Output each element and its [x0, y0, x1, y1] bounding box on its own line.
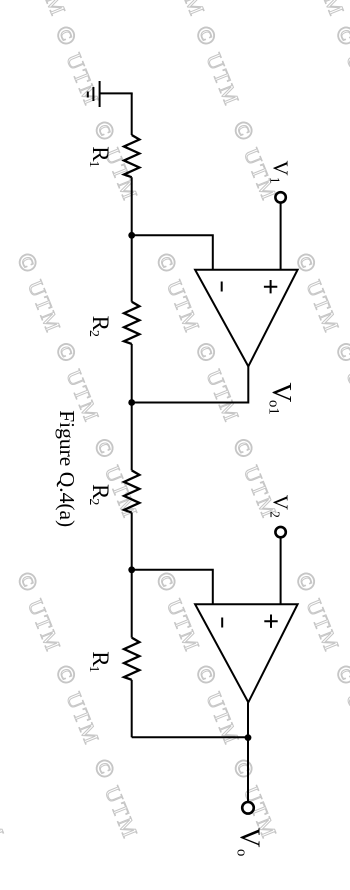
- resistor R1 (right): [124, 638, 139, 680]
- svg-text:© UTM: © UTM: [88, 755, 145, 844]
- svg-text:© UTM: © UTM: [11, 568, 68, 657]
- wire: bus segment R1 to output corner: [131, 680, 133, 738]
- wire: op-amp U2 output to Vo terminal: [247, 702, 249, 801]
- svg-text:© UTM: © UTM: [189, 22, 246, 111]
- wire: V1 terminal to op-amp U1 non-inverting input: [280, 203, 282, 270]
- svg-text:V2: V2: [268, 495, 293, 518]
- op-amp U1: [195, 270, 298, 367]
- op-amp U2 plus sign: [264, 615, 277, 628]
- terminal V2: [275, 527, 285, 537]
- resistor R2 (right): [124, 470, 139, 512]
- svg-text:R1: R1: [86, 651, 113, 672]
- wire: node A riser to op-amp U1 inverting input: [132, 235, 213, 269]
- terminal Vo: [242, 802, 254, 814]
- svg-text:Figure Q.4(a): Figure Q.4(a): [55, 410, 79, 527]
- wire: V2 terminal to op-amp U2 non-inverting input: [280, 538, 282, 605]
- wire: op-amp U1 output to node B riser: [132, 366, 249, 402]
- svg-text:© UTM: © UTM: [0, 117, 5, 206]
- wire: bus segment ground to R1: [131, 93, 133, 135]
- svg-text:© UTM: © UTM: [289, 568, 346, 657]
- svg-text:© UTM: © UTM: [150, 568, 207, 657]
- svg-text:© UTM: © UTM: [155, 0, 212, 21]
- svg-text:© UTM: © UTM: [88, 434, 145, 523]
- svg-text:© UTM: © UTM: [0, 434, 5, 523]
- svg-text:© UTM: © UTM: [49, 22, 106, 111]
- wire: feedback corner riser: [132, 736, 248, 738]
- junction node D (output feedback): [245, 734, 252, 741]
- terminal V1: [275, 192, 285, 202]
- svg-text:Vo1: Vo1: [266, 383, 298, 415]
- op-amp U1 minus sign: [221, 282, 223, 292]
- svg-text:R2: R2: [86, 484, 113, 505]
- svg-text:Vo: Vo: [234, 827, 265, 856]
- svg-text:R2: R2: [86, 316, 113, 337]
- svg-text:© UTM: © UTM: [329, 338, 350, 427]
- svg-text:© UTM: © UTM: [294, 0, 350, 21]
- wire: bus segment R2 to R1: [131, 513, 133, 638]
- wire: node C riser to op-amp U2 inverting input: [132, 570, 213, 604]
- op-amp U2: [195, 604, 298, 702]
- junction node C: [128, 566, 135, 573]
- svg-text:© UTM: © UTM: [49, 661, 106, 750]
- svg-text:© UTM: © UTM: [150, 249, 207, 338]
- resistor R2 (left): [124, 302, 139, 344]
- svg-text:© UTM: © UTM: [329, 22, 350, 111]
- svg-text:© UTM: © UTM: [289, 249, 346, 338]
- svg-text:V1: V1: [268, 161, 293, 184]
- svg-text:© UTM: © UTM: [189, 661, 246, 750]
- op-amp U1 plus sign: [264, 280, 277, 293]
- svg-text:© UTM: © UTM: [189, 338, 246, 427]
- wire: bus segment R2 to R2: [131, 344, 133, 471]
- resistor R1 (left): [124, 135, 139, 177]
- wire: bus segment R1 to R2: [131, 177, 133, 302]
- svg-text:© UTM: © UTM: [16, 0, 73, 21]
- op-amp U2 minus sign: [221, 618, 223, 628]
- svg-text:© UTM: © UTM: [11, 249, 68, 338]
- junction node A: [128, 232, 135, 239]
- ground: [88, 81, 133, 107]
- svg-text:© UTM: © UTM: [329, 661, 350, 750]
- svg-text:© UTM: © UTM: [0, 755, 11, 844]
- junction node B: [128, 399, 135, 406]
